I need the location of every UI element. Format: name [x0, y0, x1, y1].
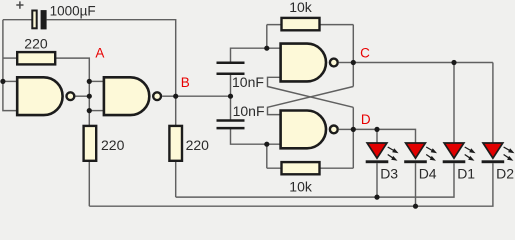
- wire D2 anode drop: [492, 63, 494, 144]
- nand gate N3: [281, 44, 326, 82]
- svg-text:D2: D2: [496, 166, 514, 182]
- wire capacitor junction vertical: [230, 74, 232, 121]
- wire top supply C5 to node B vertical: [47, 20, 176, 126]
- LED D3: [366, 143, 399, 163]
- node B junction: [173, 94, 178, 99]
- wire bus1 to D1 cathode: [176, 163, 454, 197]
- wire node D to LED D3 and D4: [353, 129, 415, 143]
- node D1 anode junction: [451, 60, 456, 65]
- wire gate3 output to node C: [339, 62, 353, 64]
- svg-text:C: C: [360, 46, 370, 61]
- wire D3 anode drop: [376, 129, 378, 143]
- resistor R5 10k: [282, 162, 320, 174]
- wire rail to gate1 upper input: [3, 80, 17, 82]
- svg-text:D4: D4: [419, 166, 437, 182]
- node capacitor junction: [228, 94, 233, 99]
- svg-text:10k: 10k: [289, 0, 313, 15]
- nand gate N4: [281, 111, 326, 149]
- wire 10k R4 right drop to node C: [352, 25, 354, 87]
- svg-text:220: 220: [101, 137, 125, 153]
- wire gate2 lower input stub: [89, 110, 104, 112]
- wire gate1 output to gate2 input rail: [76, 95, 90, 97]
- wire R1 right to node A vertical: [56, 58, 89, 126]
- svg-text:10nF: 10nF: [233, 103, 265, 119]
- wire 10k R4 leads: [267, 24, 354, 26]
- wire cross couple vertical to node D: [352, 107, 354, 168]
- capacitor C5 1000µF negative plate: [41, 10, 47, 29]
- wire gate2 upper input stub: [89, 80, 104, 82]
- capacitor C4 10nF plates: [217, 121, 245, 129]
- node C junction: [351, 60, 356, 65]
- wire left input rail: [3, 20, 17, 111]
- svg-text:A: A: [95, 45, 104, 60]
- wire R3 bottom to bus1: [175, 161, 177, 197]
- svg-text:10nF: 10nF: [232, 74, 264, 90]
- node gate4 input junction: [264, 142, 269, 147]
- svg-text:10k: 10k: [289, 178, 313, 194]
- node A junction upper: [87, 79, 92, 84]
- svg-text:B: B: [181, 75, 190, 90]
- node D3 cathode junction: [374, 195, 379, 200]
- node A junction lower: [87, 108, 92, 113]
- wire 10k R5 left drop: [266, 144, 268, 168]
- resistor R4 10k: [282, 18, 320, 30]
- node D junction: [351, 127, 356, 132]
- wire gate4 upper input to cross couple: [268, 87, 354, 115]
- node D4 cathode junction: [413, 204, 418, 209]
- wire 10k R4 left drop: [266, 25, 268, 49]
- wire 10k R5 leads: [267, 167, 354, 169]
- plus polarity mark: [16, 1, 23, 8]
- wire rail to R1: [3, 57, 17, 59]
- nand gate N4 bubble: [330, 125, 338, 133]
- node D3 anode junction: [374, 127, 379, 132]
- svg-text:D3: D3: [380, 166, 398, 182]
- nand gate N3 bubble: [330, 59, 338, 67]
- nand gate N1 bubble: [67, 92, 75, 100]
- wire gate2 output to node B: [162, 95, 176, 97]
- svg-text:D1: D1: [457, 166, 475, 182]
- node gate3 input junction: [264, 46, 269, 51]
- LED D4: [404, 143, 437, 163]
- node gate1 input junction: [0, 79, 5, 84]
- wire D1 anode drop: [453, 63, 455, 144]
- resistor R2 220 vertical: [84, 126, 97, 161]
- wire C3 top plate to gate3 input net: [231, 48, 281, 63]
- wire gate3 lower input to cross couple: [268, 77, 354, 107]
- capacitor C3 10nF plates: [217, 63, 245, 74]
- wire top supply from rail to C5: [3, 19, 32, 21]
- nand gate N2 bubble: [153, 92, 161, 100]
- capacitor C5 1000µF positive plate: [32, 11, 36, 29]
- LED D1: [443, 143, 476, 163]
- nand gate N2: [104, 77, 149, 115]
- wire C4 bottom plate to gate4 input net: [231, 128, 281, 144]
- resistor R1 220: [17, 52, 55, 64]
- wire gate4 output to node D: [339, 128, 353, 130]
- node A junction middle: [87, 94, 92, 99]
- svg-text:D: D: [361, 112, 371, 127]
- svg-text:220: 220: [186, 137, 210, 153]
- wire D3 cathode drop: [376, 163, 378, 197]
- nand gate N1: [17, 77, 62, 115]
- wire R2 bottom to bus2: [88, 161, 90, 206]
- wire D4 cathode drop: [415, 163, 417, 206]
- resistor R3 220 vertical: [169, 126, 182, 161]
- LED D2: [482, 143, 515, 163]
- wire node C to LED D1 and D2: [353, 62, 493, 64]
- svg-text:1000µF: 1000µF: [50, 3, 96, 18]
- svg-text:220: 220: [24, 36, 48, 52]
- wire bus2 to D2 cathode: [89, 163, 493, 206]
- wire node B to capacitor junction: [176, 95, 231, 97]
